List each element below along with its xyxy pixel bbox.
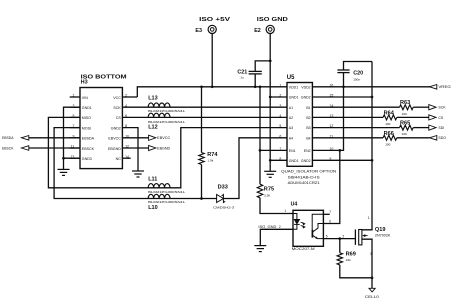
inductor L11 xyxy=(148,184,170,188)
junction C20/VDD2 xyxy=(342,85,345,88)
node EBGND arrow xyxy=(149,145,156,150)
wire GND2 rail to Q19 drain xyxy=(362,62,372,230)
wire rail to R74 xyxy=(201,87,203,153)
junction R69/source xyxy=(371,276,374,279)
svg-text:CMDSH2-3: CMDSH2-3 xyxy=(213,205,234,209)
junction GND3 xyxy=(62,157,65,160)
svg-text:B1: B1 xyxy=(306,106,310,110)
svg-text:NC: NC xyxy=(116,157,122,161)
svg-text:R65: R65 xyxy=(400,121,410,127)
svg-text:1u: 1u xyxy=(240,75,244,79)
svg-text:CELL0: CELL0 xyxy=(365,295,379,299)
svg-text:VIN: VIN xyxy=(82,96,88,100)
junction R74/rail xyxy=(200,85,203,88)
wire U5 GND1 pin2 xyxy=(270,96,287,98)
ground below H3 pin13 xyxy=(58,169,70,175)
svg-text:1.9k: 1.9k xyxy=(207,159,213,163)
H3 pin 11 stub xyxy=(70,147,80,149)
U4 internal phototransistor xyxy=(312,214,323,230)
wire MISO to U5 A3 xyxy=(48,117,287,187)
wire GND1 to GND3 xyxy=(64,107,81,158)
wire EBVCC xyxy=(122,137,148,139)
svg-text:GND1: GND1 xyxy=(289,96,299,100)
resistor R75 xyxy=(257,184,262,198)
wire H3 GND2 down xyxy=(122,128,138,171)
junction GND1 pin2 xyxy=(269,96,272,99)
svg-text:L11: L11 xyxy=(148,176,157,182)
resistor R66 xyxy=(383,135,397,140)
svg-text:A3: A3 xyxy=(289,126,293,130)
svg-text:CS: CS xyxy=(438,116,444,120)
wire E2 ISO GND vertical xyxy=(269,34,271,171)
wire C20 top to GND2 rail xyxy=(344,62,373,71)
svg-text:VREG: VREG xyxy=(438,85,451,89)
inductor L12 xyxy=(148,113,170,117)
wire U4 pin7 stub xyxy=(323,213,329,215)
wire U4 collector to EN2 xyxy=(323,150,339,223)
wire R69 to source xyxy=(340,265,372,278)
wire EBGND xyxy=(122,147,148,149)
svg-text:R69: R69 xyxy=(346,252,356,258)
wire U5 GND1 pin8 xyxy=(270,159,287,161)
op-amp U4 optocoupler MOC207-M xyxy=(293,210,323,246)
svg-text:VDD2: VDD2 xyxy=(301,85,310,89)
svg-text:100: 100 xyxy=(385,122,390,126)
wire MOSI through L10 to D33 xyxy=(54,128,217,199)
svg-text:R66: R66 xyxy=(384,131,394,137)
svg-text:3.3K: 3.3K xyxy=(264,194,271,198)
wire R63 to SCK xyxy=(413,106,429,108)
H3 pin 7 stub xyxy=(70,127,80,129)
junction E3/rail xyxy=(211,85,214,88)
svg-text:2N7002K: 2N7002K xyxy=(375,234,392,238)
wire C21 top to ISO GND xyxy=(255,61,270,72)
wire EN1 riser xyxy=(259,87,261,184)
ground ISO_GND xyxy=(254,246,266,252)
svg-text:R75: R75 xyxy=(264,187,274,193)
svg-text:MOC207-M: MOC207-M xyxy=(292,247,315,251)
connector H3 ISO BOTTOM xyxy=(80,88,122,169)
svg-text:H3: H3 xyxy=(81,80,88,86)
wire C20 bottom / EN2 riser xyxy=(312,73,343,151)
H3 pin 14 NC stub xyxy=(122,157,130,159)
wire CS line H3 to U5 A2 xyxy=(122,116,287,118)
svg-text:EBSDA: EBSDA xyxy=(2,136,14,140)
wire ISO +5V rail xyxy=(137,87,287,97)
node CELL0 arrow xyxy=(369,288,375,292)
svg-text:QUAD_ISOLATOR OPTION: QUAD_ISOLATOR OPTION xyxy=(281,169,336,173)
svg-text:ISO GND: ISO GND xyxy=(257,17,288,23)
svg-text:L13: L13 xyxy=(148,96,157,102)
svg-text:R74: R74 xyxy=(207,152,218,158)
svg-text:EBVCC: EBVCC xyxy=(157,136,171,140)
H3 pin 2 stub xyxy=(122,96,137,98)
wire to R69 xyxy=(339,239,341,253)
svg-text:EBVCC: EBVCC xyxy=(108,137,121,141)
junction riser/rail xyxy=(259,85,262,88)
svg-text:1: 1 xyxy=(284,209,286,213)
svg-text:7: 7 xyxy=(329,210,331,214)
svg-text:VDD1: VDD1 xyxy=(289,85,298,89)
wire U5 GND2 pin15 xyxy=(312,96,372,98)
H3 pin 5 stub xyxy=(70,116,80,118)
wire C21 bottom to rail xyxy=(254,74,256,87)
capacitor C20 xyxy=(337,69,349,71)
svg-text:U5: U5 xyxy=(287,75,295,81)
terminal E2 ISO GND xyxy=(266,25,274,33)
svg-text:EN1: EN1 xyxy=(289,149,296,153)
wire R74 to MOSI node xyxy=(201,165,203,199)
wire R65 to SDI xyxy=(413,127,429,129)
wire U5 to R66 xyxy=(312,137,383,139)
H3 pin 13 stub xyxy=(70,157,80,159)
svg-text:A2: A2 xyxy=(289,116,293,120)
node SDI arrow xyxy=(429,125,436,130)
junction pin15/rail xyxy=(371,96,374,99)
inductor L10 xyxy=(148,194,170,198)
wire U5 GND2 pin9 xyxy=(312,159,372,161)
node EBSCK arrow xyxy=(21,146,28,151)
U4 internal LED xyxy=(293,214,297,220)
resistor R65 xyxy=(400,125,414,130)
svg-text:GND2: GND2 xyxy=(111,126,121,130)
inductor L13 xyxy=(148,103,170,107)
svg-text:EBSCK: EBSCK xyxy=(82,147,95,151)
svg-text:BLM21PG300SN1L: BLM21PG300SN1L xyxy=(148,200,186,204)
svg-text:SDO: SDO xyxy=(438,136,446,140)
junction collector/EN2 xyxy=(338,149,341,152)
svg-text:B4: B4 xyxy=(306,136,310,140)
svg-text:5: 5 xyxy=(326,234,328,238)
svg-text:2: 2 xyxy=(279,225,281,229)
svg-text:L10: L10 xyxy=(148,205,157,211)
node EBVCC arrow xyxy=(149,135,156,140)
svg-text:A1: A1 xyxy=(289,106,293,110)
wire U4 emitter to Q19 gate xyxy=(323,238,355,240)
junction GND1 pin8 xyxy=(269,159,272,162)
svg-text:SDI: SDI xyxy=(438,126,444,130)
ground below H3 GND2 xyxy=(132,171,144,177)
wire U5 to R65 xyxy=(312,127,399,129)
svg-text:BLM21PG300SN1L: BLM21PG300SN1L xyxy=(148,120,186,124)
svg-text:C20: C20 xyxy=(353,70,363,76)
svg-text:B3: B3 xyxy=(306,126,310,130)
junction pin9/rail xyxy=(371,159,374,162)
svg-text:SI8441AB-D-IS: SI8441AB-D-IS xyxy=(288,176,321,180)
svg-text:BLM21PG300SN1L: BLM21PG300SN1L xyxy=(148,190,186,194)
ground below U5 xyxy=(264,171,276,177)
svg-text:ISO_GND: ISO_GND xyxy=(258,225,277,229)
svg-text:U4: U4 xyxy=(291,202,298,208)
wire U4 pin2 to ISO GND xyxy=(260,229,293,245)
capacitor C21 xyxy=(249,70,262,72)
node EBSDA arrow xyxy=(21,136,28,141)
svg-text:EN2: EN2 xyxy=(304,149,311,153)
svg-text:CS: CS xyxy=(116,116,122,120)
wire R64 to CS xyxy=(397,116,429,118)
svg-text:MISO: MISO xyxy=(82,116,91,120)
node CS arrow xyxy=(429,115,436,120)
node SDO arrow xyxy=(429,136,436,141)
junction gate/R69 xyxy=(338,237,341,240)
junction R74/MOSI xyxy=(200,197,203,200)
svg-text:A4: A4 xyxy=(289,136,293,140)
svg-text:SCK: SCK xyxy=(113,106,121,110)
resistor R64 xyxy=(383,115,397,120)
svg-text:L12: L12 xyxy=(148,125,157,131)
svg-text:VCC: VCC xyxy=(113,96,121,100)
svg-text:GND2: GND2 xyxy=(301,159,311,163)
wire R66 to SDO xyxy=(397,137,430,139)
svg-text:1: 1 xyxy=(279,83,281,87)
svg-text:Q19: Q19 xyxy=(375,227,386,233)
wire D33 to U5 A4 xyxy=(223,138,287,199)
svg-text:2: 2 xyxy=(342,234,344,238)
wire EBSCK xyxy=(27,147,80,149)
resistor R74 xyxy=(199,153,204,165)
svg-text:100: 100 xyxy=(402,132,407,136)
wire U5 to R63 xyxy=(312,106,399,108)
wire Q19 source to CELL0 xyxy=(362,239,372,288)
wire U5 EN1 stub xyxy=(260,149,287,151)
svg-text:GND1: GND1 xyxy=(82,106,92,110)
svg-text:100: 100 xyxy=(385,142,390,146)
transistor Q19 2N7002K xyxy=(354,230,356,245)
svg-text:B2: B2 xyxy=(306,116,310,120)
svg-text:E2: E2 xyxy=(254,28,261,34)
svg-text:EBSCK: EBSCK xyxy=(2,146,14,150)
wire R75 to U4 pin1 xyxy=(260,198,293,214)
diode D33 schottky xyxy=(217,195,224,203)
svg-text:EBSDA: EBSDA xyxy=(82,137,95,141)
svg-text:22k: 22k xyxy=(346,258,351,262)
svg-text:BLM21PG300SN1L: BLM21PG300SN1L xyxy=(148,109,186,113)
resistor R63 xyxy=(400,105,414,110)
svg-text:R63: R63 xyxy=(400,100,410,106)
svg-text:GND3: GND3 xyxy=(82,157,92,161)
junction EN1 xyxy=(259,149,262,152)
wire E3 to rail xyxy=(211,34,213,87)
H3 pin 1 stub xyxy=(70,96,80,98)
node VREG arrow xyxy=(429,85,436,90)
svg-text:100n: 100n xyxy=(353,78,360,82)
op-amp U5 quad isolator xyxy=(287,83,312,167)
wire VREG xyxy=(312,86,436,88)
wire SCK line H3 to U5 A1 xyxy=(122,106,287,108)
node SCK arrow xyxy=(429,105,436,110)
H3 pin 9 stub xyxy=(70,137,80,139)
svg-text:SCK: SCK xyxy=(438,106,446,110)
svg-text:ISO +5V: ISO +5V xyxy=(199,17,230,23)
svg-text:MOSI: MOSI xyxy=(82,126,91,130)
svg-text:D33: D33 xyxy=(218,184,228,190)
svg-text:R64: R64 xyxy=(384,110,395,116)
svg-text:GND2: GND2 xyxy=(301,96,311,100)
svg-text:1: 1 xyxy=(368,216,370,220)
svg-text:EBGND: EBGND xyxy=(157,146,170,150)
svg-text:ADUM1401CRZ1: ADUM1401CRZ1 xyxy=(288,181,320,185)
wire EBSDA xyxy=(27,137,80,139)
svg-text:100: 100 xyxy=(402,112,407,116)
wire U5 to R64 xyxy=(312,116,383,118)
U4 LED emission arrows xyxy=(301,222,305,228)
H3 pin 3 stub xyxy=(70,106,80,108)
svg-text:E3: E3 xyxy=(195,28,202,34)
junction C21/rail xyxy=(254,85,257,88)
svg-text:GND1: GND1 xyxy=(289,159,299,163)
svg-text:6: 6 xyxy=(329,219,331,223)
svg-text:1: 1 xyxy=(72,94,74,98)
svg-text:EBGND: EBGND xyxy=(108,147,121,151)
wire GND3 to ground xyxy=(63,158,65,169)
junction C21/E2 xyxy=(269,60,272,63)
terminal E3 ISO +5V xyxy=(208,25,216,33)
